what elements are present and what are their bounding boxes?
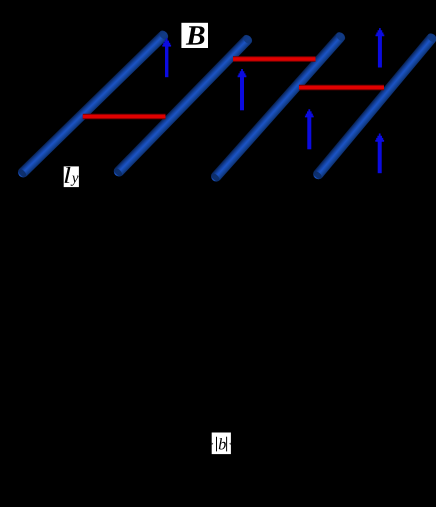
- flux tube L2: [113, 33, 254, 177]
- flux tube L3: [210, 30, 347, 182]
- red rung R2: [233, 56, 316, 61]
- dimension arrowhead right: [229, 443, 231, 446]
- field arrow A1: [162, 38, 171, 77]
- |b| bars: [216, 437, 218, 452]
- field arrow A3: [305, 109, 314, 149]
- flux tube L1: [17, 29, 170, 179]
- label |b|: [212, 433, 231, 455]
- red rung R3: [299, 85, 384, 90]
- field arrow A2: [238, 69, 247, 110]
- flux tube L4: [312, 32, 436, 181]
- field arrow A5: [375, 134, 384, 174]
- label B: [181, 23, 208, 48]
- field arrow A4: [376, 28, 385, 67]
- red rung R1: [83, 114, 166, 119]
- dimension arrowhead left: [212, 443, 214, 446]
- label l_y: [64, 166, 79, 187]
